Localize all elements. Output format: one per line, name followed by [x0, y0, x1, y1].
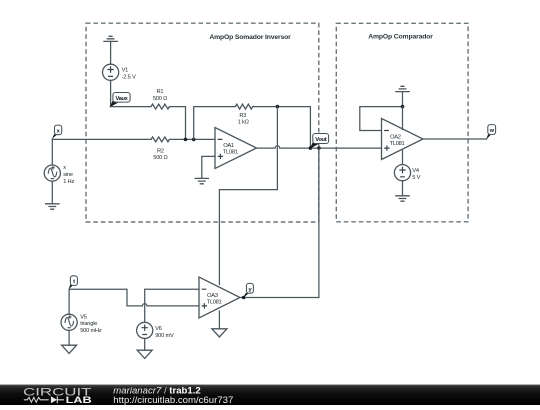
value label R2 500 ohm	[153, 148, 167, 161]
svg-text:OA2: OA2	[390, 134, 401, 140]
junction dot R1/R2	[184, 138, 188, 142]
resistor R1	[151, 104, 170, 109]
svg-text:1 kΩ: 1 kΩ	[238, 120, 249, 126]
svg-text:500 Ω: 500 Ω	[153, 155, 167, 161]
wire OA1 output to OA2 + (with hop)	[257, 146, 382, 148]
junction dot feedback riser	[192, 138, 196, 142]
node flag Vaux	[110, 93, 131, 108]
svg-text:V1: V1	[122, 68, 129, 74]
value label V1 -2.5 V	[122, 68, 136, 81]
wire branch down to OA3 V+ (with pass under hop)	[219, 107, 277, 285]
wire Vaux node to R1	[110, 106, 151, 108]
wire OA2 V+ stub	[402, 107, 404, 130]
wire t node to OA3 + route	[69, 289, 199, 306]
ground (below OA3, triangle style)	[212, 329, 227, 337]
wire V6 to ground	[144, 339, 146, 351]
svg-text:TL081: TL081	[390, 141, 405, 147]
junction dot OA2 loop	[401, 105, 405, 109]
wire OA2 inverting loop	[360, 107, 403, 131]
resistor R2	[151, 137, 170, 142]
svg-text:sine: sine	[63, 172, 73, 178]
svg-text:5 V: 5 V	[412, 175, 420, 181]
svg-text:OA1: OA1	[223, 143, 234, 149]
junction dot feedback to OA3 supply branch	[276, 105, 280, 109]
wire V6 riser to OA3 - input	[145, 289, 199, 322]
node flag w	[486, 125, 495, 140]
ground (below V4)	[395, 196, 410, 201]
wire x node to R2	[52, 138, 151, 140]
wire ground to V1	[110, 41, 112, 64]
svg-text:TL081: TL081	[207, 299, 222, 305]
node flag x	[52, 125, 62, 139]
value label V6 900 mV	[155, 326, 174, 339]
value label x sine 1 Hz	[63, 165, 74, 185]
op-amp OA3	[199, 277, 240, 318]
voltage source V4	[394, 165, 410, 181]
ground (below x source)	[45, 204, 60, 209]
svg-text:R3: R3	[239, 113, 246, 119]
ground (below V5, triangle style)	[62, 345, 77, 353]
junction dot y flag	[242, 296, 246, 300]
svg-text:LAB: LAB	[66, 395, 92, 405]
svg-text:1 Hz: 1 Hz	[63, 179, 74, 185]
svg-text:500 mHz: 500 mHz	[80, 328, 102, 334]
footer text	[113, 386, 233, 407]
wire OA2 V- stub to V4	[402, 151, 404, 165]
wire R2 to OA1 inverting input	[170, 138, 216, 140]
ground (OA2 loop top)	[395, 86, 410, 91]
svg-text:AmpOp Comparador: AmpOp Comparador	[368, 34, 433, 41]
value label R3 1 kohm	[238, 113, 249, 126]
wire V5 to ground	[68, 330, 70, 345]
svg-text:V4: V4	[412, 168, 419, 174]
svg-text:Vaux: Vaux	[115, 96, 128, 102]
ground (top of V1)	[103, 36, 118, 41]
wire OA1 + input to ground	[202, 156, 215, 178]
ground (below V6, triangle style)	[137, 350, 152, 358]
voltage source V1	[103, 64, 119, 80]
node flag t	[69, 276, 78, 290]
wire V4 to ground	[402, 181, 404, 196]
svg-text:V6: V6	[155, 326, 162, 332]
svg-text:triangle: triangle	[80, 321, 97, 327]
svg-text:V5: V5	[80, 314, 87, 320]
op-amp OA2	[382, 119, 424, 160]
voltage source x (sine 1 Hz)	[44, 165, 60, 181]
voltage source V5 (triangle)	[61, 314, 77, 330]
node flag y	[243, 283, 254, 298]
dashed box AmpOp Somador Inversor	[86, 23, 319, 222]
svg-text:w: w	[489, 128, 495, 134]
value label V4 5 V	[412, 168, 420, 181]
ground (OA1 non-inverting)	[195, 178, 210, 183]
voltage source V6	[137, 322, 153, 338]
wire OA3 output riser	[240, 148, 319, 297]
svg-text:Vout: Vout	[315, 137, 326, 143]
CircuitLab logo	[23, 387, 92, 405]
svg-text:OA3: OA3	[207, 293, 218, 299]
svg-text:http://circuitlab.com/c6ur737: http://circuitlab.com/c6ur737	[113, 395, 233, 405]
resistor R3	[235, 104, 252, 109]
svg-text:500 Ω: 500 Ω	[153, 96, 167, 102]
wire R3 to output riser	[253, 107, 311, 149]
svg-text:-2.5 V: -2.5 V	[122, 75, 136, 81]
wire V1 to Vaux node	[110, 80, 112, 106]
wire x node to source	[51, 139, 53, 165]
footer bar	[0, 385, 540, 406]
svg-text:R1: R1	[156, 89, 163, 95]
wire t node to V5	[68, 289, 70, 314]
svg-text:900 mV: 900 mV	[155, 333, 174, 339]
dashed box AmpOp Comparador	[336, 23, 468, 222]
junction dot R3 riser at output	[309, 146, 313, 150]
value label R1 500 ohm	[153, 89, 167, 102]
wire OA2 output to w flag	[423, 138, 487, 140]
op-amp OA1	[215, 128, 257, 169]
svg-text:AmpOp Somador Inversor: AmpOp Somador Inversor	[209, 34, 291, 41]
wire feedback riser	[194, 107, 236, 140]
value label V5 triangle 500 mHz	[80, 314, 102, 333]
wire source to ground	[51, 181, 53, 204]
junction dot OA3 riser at output	[317, 146, 321, 150]
svg-text:TL081: TL081	[223, 150, 238, 156]
wire OA3 V- stub	[218, 311, 220, 329]
node flag Vout	[310, 134, 329, 149]
svg-text:x: x	[63, 165, 66, 171]
wire R1 to minus-row riser	[170, 107, 186, 140]
svg-text:R2: R2	[157, 148, 164, 154]
wire ground to loop node	[402, 92, 404, 107]
